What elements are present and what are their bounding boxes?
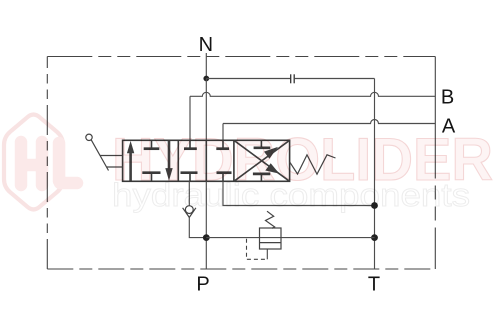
- wire tank column vertical: [374, 79, 376, 270]
- wire A drop to valve: [222, 124, 224, 141]
- svg-text:hydraulic components: hydraulic components: [112, 177, 470, 213]
- wire P column: [205, 181, 207, 269]
- plug/break symbol ticks: [291, 74, 295, 83]
- relief valve inner passage line: [260, 242, 282, 244]
- junction dot P: [203, 234, 210, 241]
- relief valve spring: [266, 211, 275, 228]
- junction dot at N branch: [203, 76, 209, 82]
- enclosure dashed border top: [47, 56, 435, 58]
- wire port A line with hop: [223, 120, 435, 124]
- check valve ball circle: [185, 206, 193, 214]
- wire carry-over horizontal from N junction: [206, 78, 290, 80]
- svg-text:N: N: [199, 34, 213, 56]
- valve position 1 top blocked port T: [144, 140, 160, 148]
- wire valve tank return to T column: [223, 181, 375, 205]
- valve position 3 top blocked port T: [254, 140, 271, 148]
- watermark logo hexagon: [4, 115, 77, 210]
- return spring zigzag: [290, 155, 336, 174]
- valve position 1 bottom blocked port T: [142, 173, 160, 182]
- valve position 2 bottom blocked port T left: [181, 173, 198, 182]
- wire port B line with hops: [190, 92, 435, 96]
- valve position 2 bypass through line: [205, 140, 207, 181]
- svg-text:T: T: [368, 274, 380, 296]
- wire relief line P to T: [206, 237, 374, 239]
- valve position 3 cross arrow up-right: [234, 140, 290, 181]
- relief valve RV1 body: [260, 228, 282, 249]
- wire N vertical to junction: [205, 53, 207, 79]
- enclosure dashed border right: [434, 57, 436, 270]
- wire check valve to P junction: [189, 217, 206, 237]
- wire carry-over continues to tank column: [294, 78, 374, 80]
- svg-text:B: B: [441, 86, 454, 108]
- valve position 3 cross arrow down-right: [234, 140, 290, 181]
- lever actuator knob circle: [86, 134, 92, 140]
- lever arm diagonal: [91, 140, 108, 171]
- valve position 2 blocked A port T: [216, 140, 229, 148]
- lever fork lower link: [107, 166, 123, 168]
- watermark logo HL letters: [21, 142, 77, 185]
- valve position 1 up arrow: [127, 141, 134, 181]
- valve position 1 down arrow: [165, 140, 172, 180]
- wire N column from junction to valve: [205, 79, 207, 141]
- valve position 2 (neutral) blocked B port T: [184, 140, 197, 148]
- enclosure dashed border bottom: [47, 268, 435, 270]
- valve position 2 bottom blocked port T right: [217, 173, 232, 182]
- wire B drop to valve: [189, 96, 191, 141]
- check valve seat V: [183, 208, 196, 218]
- enclosure dashed border left: [46, 57, 48, 270]
- valve position 3 bottom blocked port T: [253, 174, 270, 181]
- junction dot tank upper: [371, 202, 378, 209]
- lever fork upper link: [100, 155, 122, 157]
- relief valve drain stub: [266, 249, 268, 259]
- wire valve to check valve: [188, 181, 190, 206]
- junction dot tank lower: [371, 234, 378, 241]
- valve V1 body outline (3 position): [123, 140, 290, 181]
- svg-text:P: P: [196, 274, 209, 296]
- relief valve pilot dashed line: [247, 239, 268, 260]
